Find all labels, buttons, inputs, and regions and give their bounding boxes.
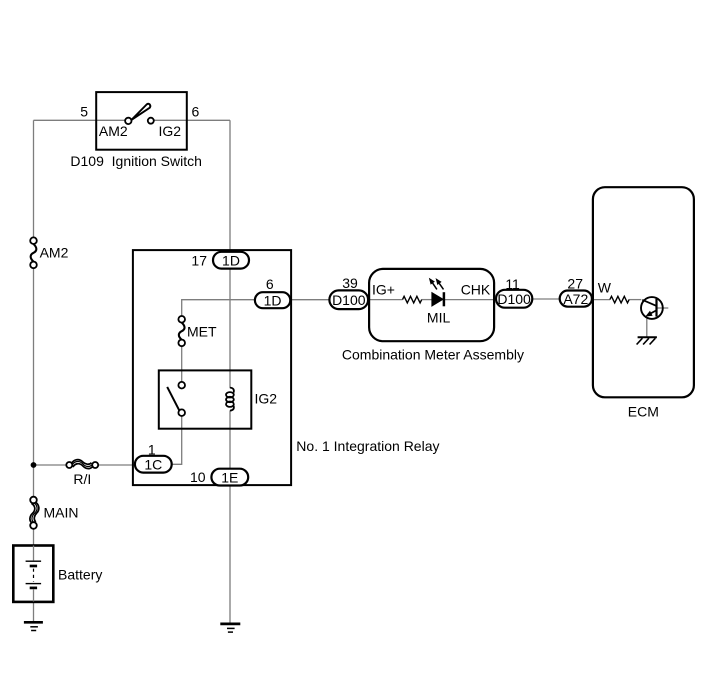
- connector oval 1C pin 1: [135, 456, 172, 473]
- LED MIL: [430, 279, 444, 307]
- connector oval 1D pin 17: [213, 252, 249, 269]
- wire: relay to connector D100: [290, 299, 329, 301]
- svg-text:6: 6: [192, 103, 200, 119]
- svg-text:17: 17: [191, 252, 207, 268]
- wire: relay pin 6 horizontal to MET: [182, 300, 255, 316]
- wire: left vertical from switch to fuse AM2: [33, 120, 35, 237]
- resistor (ECM): [610, 296, 629, 303]
- ignition switch box D109: [96, 92, 187, 150]
- svg-text:CHK: CHK: [461, 282, 491, 298]
- svg-text:1D: 1D: [264, 292, 282, 308]
- svg-text:1: 1: [148, 441, 156, 457]
- ground (battery): [24, 622, 43, 630]
- connector oval 1D pin 6: [255, 292, 290, 308]
- svg-text:1C: 1C: [144, 457, 162, 473]
- wire: left vertical from fuse AM2 to MAIN link: [33, 268, 35, 497]
- battery: [13, 546, 53, 602]
- fuse AM2: [30, 237, 37, 268]
- svg-text:MAIN: MAIN: [44, 505, 79, 521]
- svg-text:5: 5: [80, 103, 88, 119]
- fusible link R/I: [66, 460, 98, 469]
- combination meter box: [369, 269, 494, 341]
- transistor Q (MIL driver): [641, 297, 663, 319]
- ground (relay): [220, 624, 240, 632]
- connector oval D100 pin 39: [329, 290, 368, 309]
- fusible link MAIN: [30, 497, 39, 529]
- svg-text:11: 11: [505, 276, 520, 292]
- relay box: [133, 250, 291, 485]
- svg-text:W: W: [598, 280, 612, 296]
- junction node: [31, 462, 37, 468]
- wire: LED to connector D100 right: [445, 299, 496, 301]
- svg-text:D100: D100: [497, 291, 531, 307]
- svg-text:27: 27: [567, 275, 583, 291]
- svg-text:R/I: R/I: [73, 471, 91, 487]
- fuse MET: [178, 316, 185, 346]
- svg-text:6: 6: [266, 276, 274, 292]
- relay switch contact top: [178, 382, 185, 389]
- svg-text:AM2: AM2: [40, 245, 69, 261]
- wire: R/I link to relay 1C: [98, 464, 135, 466]
- svg-text:D100: D100: [332, 292, 366, 308]
- wire: relay vertical oval 1E to ground: [229, 485, 231, 623]
- svg-text:D109 Ignition Switch: D109 Ignition Switch: [70, 153, 202, 169]
- relay inner contact box: [159, 370, 252, 428]
- svg-text:MET: MET: [187, 323, 217, 339]
- wire: top horizontal left segment: [34, 119, 126, 121]
- wire: D100 to A72: [532, 298, 559, 300]
- ignition switch blade: [131, 104, 150, 120]
- svg-text:IG2: IG2: [159, 123, 182, 139]
- wire: meter resistor to LED: [422, 299, 432, 301]
- wire: D100 to meter resistor: [368, 299, 402, 301]
- wire: 1C to relay switch: [172, 416, 182, 464]
- wire: top horizontal right segment: [154, 119, 230, 121]
- wire: ECM resistor to transistor: [629, 299, 641, 301]
- svg-text:1D: 1D: [222, 253, 240, 269]
- relay switch blade: [167, 387, 179, 411]
- svg-text:AM2: AM2: [99, 123, 128, 139]
- wire: transistor emitter to ground: [646, 319, 648, 337]
- wire: battery to ground: [33, 602, 35, 622]
- resistor (meter): [403, 296, 422, 303]
- connector oval A72 pin 27: [560, 291, 592, 307]
- svg-text:39: 39: [342, 275, 358, 291]
- wire: MET to relay switch contact: [181, 346, 183, 382]
- wire: A72 into ECM to resistor: [592, 299, 610, 301]
- svg-text:ECM: ECM: [628, 404, 659, 420]
- wire: relay vertical coil to oval 1E: [229, 410, 231, 469]
- connector oval D100 pin 11: [496, 290, 532, 308]
- svg-text:10: 10: [190, 469, 206, 485]
- svg-text:A72: A72: [563, 291, 588, 307]
- svg-text:Combination Meter Assembly: Combination Meter Assembly: [342, 347, 524, 363]
- svg-text:IG2: IG2: [255, 391, 278, 407]
- svg-text:1E: 1E: [221, 469, 238, 485]
- wire: transistor collector stub: [657, 307, 669, 309]
- wire: right vertical ignition to relay: [229, 120, 231, 252]
- relay switch contact bottom: [178, 409, 185, 416]
- svg-text:Battery: Battery: [58, 566, 102, 582]
- ECM box: [593, 187, 694, 397]
- ignition switch contact AM2: [125, 118, 131, 124]
- wire: relay vertical oval 1D to coil: [229, 269, 231, 389]
- chassis ground (ECM): [637, 337, 657, 344]
- wire: left vertical from MAIN link to battery: [33, 529, 35, 546]
- connector oval 1E pin 10: [211, 469, 248, 486]
- svg-text:MIL: MIL: [427, 309, 451, 325]
- ignition switch contact IG2: [148, 118, 154, 124]
- wire: battery row left: [34, 464, 67, 466]
- svg-text:No. 1 Integration Relay: No. 1 Integration Relay: [296, 438, 439, 454]
- svg-text:IG+: IG+: [372, 282, 395, 298]
- relay coil IG2: [226, 388, 234, 411]
